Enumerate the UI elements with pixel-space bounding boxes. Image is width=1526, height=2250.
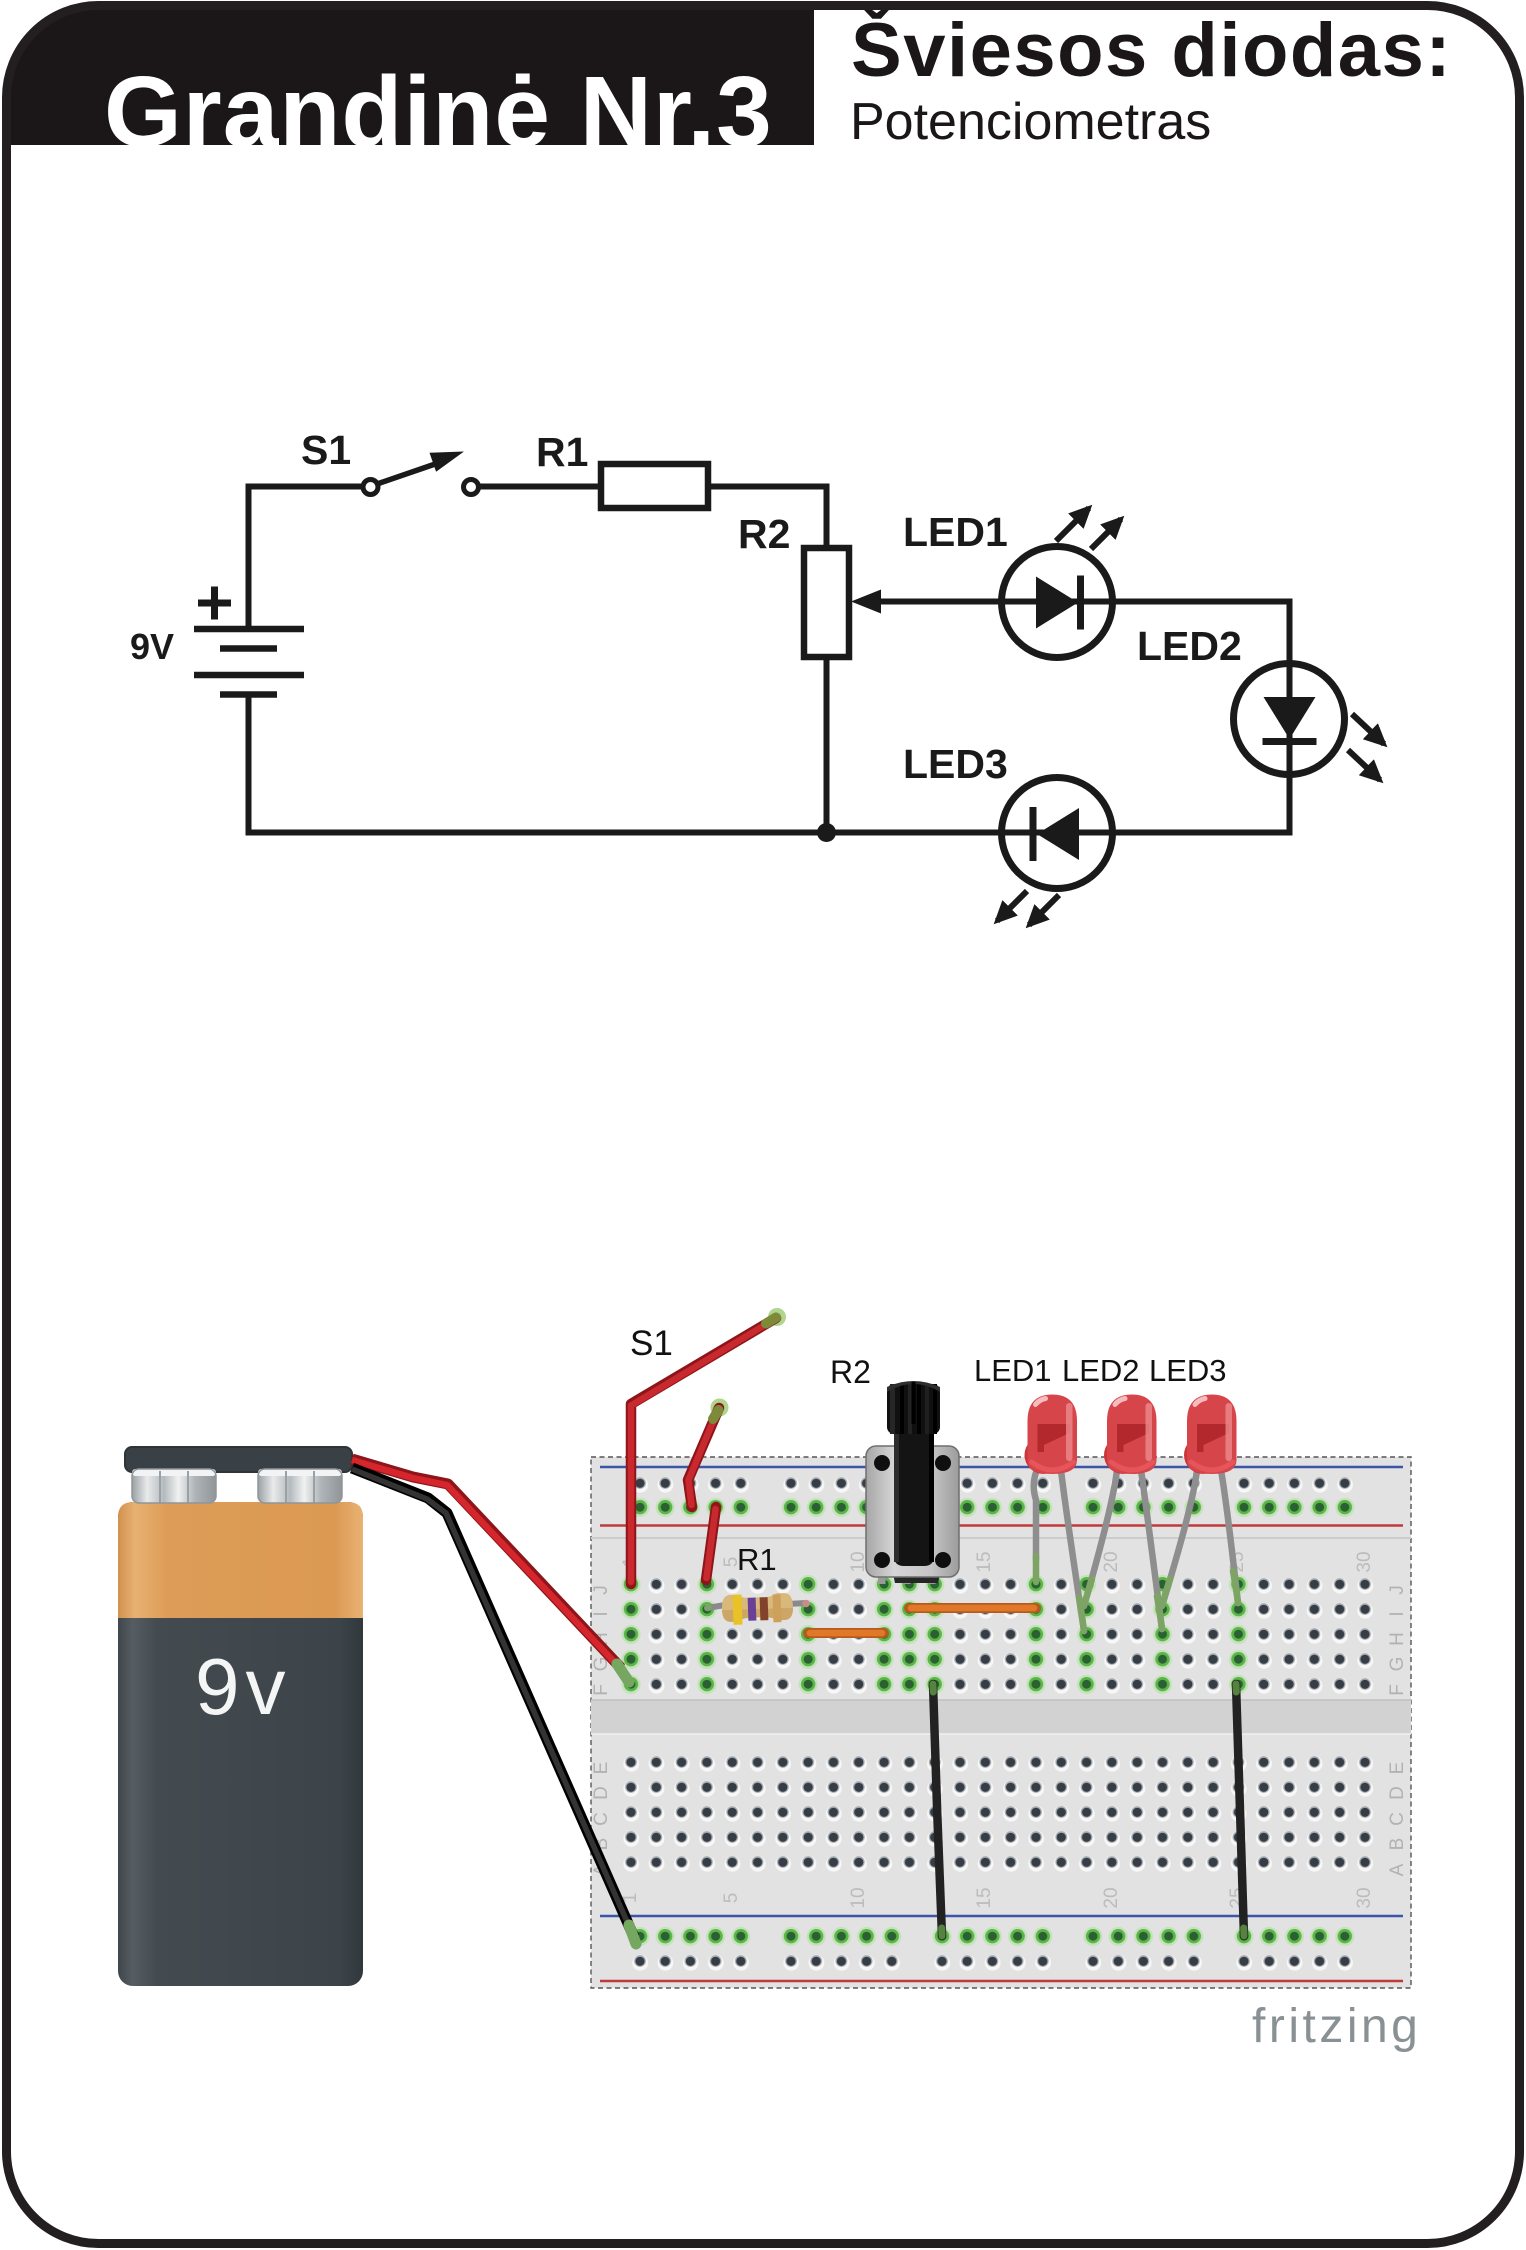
potentiometer R2 graphic xyxy=(866,1381,959,1584)
wire battery+ to switch xyxy=(249,487,362,630)
potentiometer R2 xyxy=(804,548,849,657)
svg-text:9v: 9v xyxy=(195,1642,292,1731)
svg-text:H: H xyxy=(1387,1632,1408,1646)
svg-text:E: E xyxy=(591,1762,612,1775)
svg-text:Šviesos diodas:: Šviesos diodas: xyxy=(851,8,1452,93)
svg-text:D: D xyxy=(1387,1786,1408,1800)
orange jumper H8-H11 xyxy=(808,1628,884,1638)
svg-text:F: F xyxy=(591,1684,612,1696)
wire switch to R1 xyxy=(479,484,601,490)
main grid bottom block rows E-A xyxy=(618,1750,1377,1877)
svg-text:R2: R2 xyxy=(830,1354,871,1390)
svg-text:D: D xyxy=(591,1786,612,1800)
svg-text:Grandinė Nr.3: Grandinė Nr.3 xyxy=(104,56,773,168)
wire LED1 to LED2 top xyxy=(872,599,1292,605)
main grid top block rows J-F xyxy=(618,1572,1377,1697)
switch S1 xyxy=(363,452,479,495)
svg-text:20: 20 xyxy=(1101,1551,1122,1572)
bottom rail holes row2 xyxy=(627,1949,1357,1974)
svg-text:I: I xyxy=(591,1611,612,1616)
svg-text:S1: S1 xyxy=(301,427,351,473)
orange jumper I12-I17 xyxy=(909,1603,1036,1613)
svg-text:5: 5 xyxy=(721,1893,742,1904)
svg-text:10: 10 xyxy=(848,1887,869,1908)
svg-text:9V: 9V xyxy=(130,626,174,667)
svg-text:LED1: LED1 xyxy=(903,509,1008,555)
LED3 xyxy=(997,778,1113,926)
LED2 legs xyxy=(1084,1470,1162,1629)
LED1 xyxy=(1002,508,1122,658)
svg-text:S1: S1 xyxy=(630,1324,673,1363)
svg-text:R1: R1 xyxy=(536,429,588,475)
black jumper F13 to ground rail xyxy=(933,1684,942,1936)
svg-text:30: 30 xyxy=(1354,1887,1375,1908)
svg-text:15: 15 xyxy=(974,1551,995,1572)
LED3 bulb xyxy=(1184,1395,1237,1475)
battery 9V xyxy=(194,587,304,695)
wire R1 to R2 xyxy=(708,487,827,549)
wire battery- to bottom node xyxy=(246,694,252,836)
LED3 legs xyxy=(1162,1470,1238,1606)
wire bottom net xyxy=(246,599,1290,833)
resistor R1 xyxy=(601,464,708,508)
svg-text:R2: R2 xyxy=(738,511,790,557)
row letter labels xyxy=(591,1585,1408,1876)
breadboard base xyxy=(591,1457,1411,1988)
switch wire S1 b xyxy=(688,1399,729,1508)
LED2 xyxy=(1234,664,1385,781)
svg-text:LED3: LED3 xyxy=(1149,1353,1227,1388)
black battery wire xyxy=(352,1468,634,1937)
switch wire S1 a xyxy=(631,1308,786,1584)
svg-text:C: C xyxy=(591,1812,612,1826)
svg-text:E: E xyxy=(1387,1762,1408,1775)
LED1 bulb xyxy=(1025,1395,1078,1475)
column number labels xyxy=(620,1551,1375,1908)
svg-text:A: A xyxy=(1387,1863,1408,1876)
svg-text:G: G xyxy=(1387,1657,1408,1672)
svg-text:LED2: LED2 xyxy=(1137,623,1242,669)
red battery wire xyxy=(352,1459,621,1668)
svg-text:R1: R1 xyxy=(737,1542,777,1577)
svg-text:J: J xyxy=(1387,1585,1408,1595)
top rail holes row1 xyxy=(627,1471,1357,1496)
svg-text:fritzing: fritzing xyxy=(1252,2000,1421,2053)
svg-text:LED2: LED2 xyxy=(1062,1353,1140,1388)
svg-text:I: I xyxy=(1387,1611,1408,1616)
svg-text:F: F xyxy=(1387,1684,1408,1696)
svg-text:Potenciometras: Potenciometras xyxy=(850,93,1211,151)
top rail holes row2 (power net) xyxy=(627,1495,1357,1520)
LED1 legs xyxy=(1034,1470,1084,1631)
svg-text:30: 30 xyxy=(1354,1551,1375,1572)
red jumper rail to J4 xyxy=(706,1507,716,1580)
junction node xyxy=(817,823,836,842)
bottom rail holes row1 (ground net) xyxy=(627,1924,1357,1949)
svg-text:15: 15 xyxy=(974,1887,995,1908)
potentiometer wiper arrow xyxy=(851,590,881,614)
resistor R1 graphic xyxy=(704,1593,810,1625)
header band xyxy=(10,9,814,145)
wire R2 bottom xyxy=(824,657,830,835)
black jumper F25 to ground rail xyxy=(1236,1684,1244,1936)
svg-text:B: B xyxy=(1387,1838,1408,1851)
battery 9V graphic xyxy=(118,1447,363,1986)
svg-text:J: J xyxy=(591,1585,612,1595)
svg-text:20: 20 xyxy=(1101,1887,1122,1908)
svg-text:C: C xyxy=(1387,1812,1408,1826)
svg-text:LED1: LED1 xyxy=(974,1353,1052,1388)
LED2 bulb xyxy=(1104,1395,1157,1475)
svg-text:LED3: LED3 xyxy=(903,741,1008,787)
